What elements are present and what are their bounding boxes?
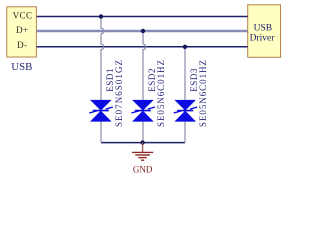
junction node VCC/ESD1 — [99, 14, 103, 18]
wire ESD3 branch upper — [184, 47, 186, 100]
USB Driver box (right) — [248, 5, 281, 58]
svg-text:USB: USB — [254, 23, 272, 33]
wire ESD2 branch upper — [143, 31, 146, 100]
junction node D+/ESD2 — [141, 29, 145, 33]
junction node rail/GND — [140, 140, 144, 144]
svg-text:VCC: VCC — [13, 11, 33, 21]
svg-text:D-: D- — [17, 40, 27, 50]
wire D+ net — [37, 30, 248, 32]
svg-text:SE07N6S01GZ: SE07N6S01GZ — [114, 60, 124, 127]
svg-text:SE05N6C01HZ: SE05N6C01HZ — [156, 60, 166, 127]
ground symbol — [132, 143, 153, 161]
wire ESD1 branch upper — [101, 17, 104, 100]
TVS diode ESD3 symbol — [174, 100, 198, 122]
svg-text:Driver: Driver — [250, 33, 276, 43]
svg-text:GND: GND — [133, 164, 153, 174]
wire D- net — [37, 46, 248, 48]
wire ESD3 branch lower — [184, 122, 186, 143]
junction node D-/ESD3 — [183, 45, 187, 49]
wire ESD1 branch lower — [100, 122, 102, 143]
svg-text:D+: D+ — [16, 25, 28, 35]
TVS diode ESD2 symbol — [131, 100, 155, 122]
wire ground rail — [101, 142, 185, 144]
wire VCC net — [37, 16, 248, 18]
sheet symbol USB (left box) — [7, 7, 37, 57]
TVS diode ESD1 symbol — [89, 100, 113, 122]
wire ESD2 branch lower — [142, 122, 144, 143]
svg-text:USB: USB — [11, 61, 32, 73]
svg-text:SE05N6C01HZ: SE05N6C01HZ — [198, 60, 208, 127]
